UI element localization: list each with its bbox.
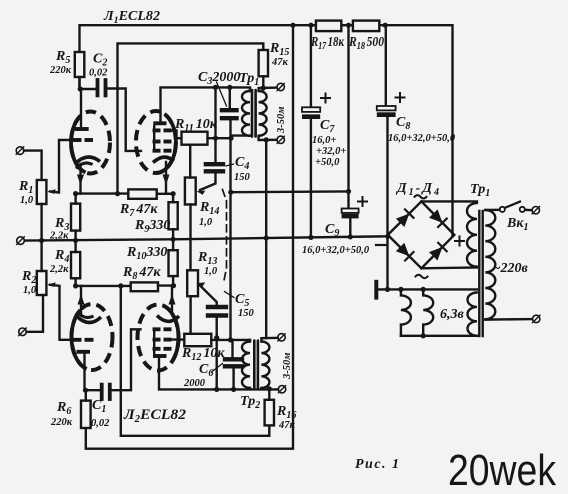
wire B+ long vertical to bottom bus [86, 25, 293, 449]
terminal Tr2 out bottom [278, 386, 285, 393]
wire cathode V4 up with arrow [172, 286, 174, 315]
svg-text:+32,0+: +32,0+ [316, 146, 346, 157]
svg-text:0,02: 0,02 [89, 68, 108, 79]
capacitor C4 [206, 162, 223, 166]
svg-text:220к: 220к [49, 65, 72, 76]
wire R16 top [268, 389, 270, 400]
node heater left [398, 287, 403, 292]
wire R14 top from screen drop [189, 145, 191, 178]
resistor R12 [184, 334, 211, 346]
node mid bus Tr commons [264, 235, 269, 240]
wire ground drop Tr1 to Tr2 secondary [265, 140, 267, 338]
wire anode node to C2 [80, 88, 96, 90]
node R16 top [267, 386, 272, 391]
plus sign C7 [321, 94, 330, 103]
resistor R14 [185, 178, 196, 205]
svg-text:1,0: 1,0 [20, 195, 34, 206]
wire mains winding bottom to terminal [485, 318, 532, 321]
resistor R8 [131, 282, 158, 291]
anode plate V3 [77, 350, 91, 354]
resistor R4 [71, 252, 80, 278]
svg-text:R747к: R747к [119, 202, 158, 219]
capacitor C6 [225, 357, 242, 361]
plus sign C8 [396, 93, 405, 102]
resistor R6 [81, 401, 91, 428]
wire anode V3 into tube [83, 354, 85, 391]
wire R9 top [172, 194, 174, 202]
wire R3 bottom to bus [74, 231, 76, 241]
switch Bk1 lever [505, 202, 520, 208]
wire C3 top lead [229, 87, 231, 108]
node cathode V1 [73, 191, 78, 196]
wire R5 bottom to anode node [78, 77, 80, 89]
svg-text:R10330: R10330 [126, 245, 167, 262]
node Tr1 secondary bottom ground drop [264, 137, 269, 142]
wire R13 wiper diagonal to C5 [200, 286, 217, 305]
diode D1 top-left [396, 214, 409, 227]
wire feedback R16 to cathode V3 [121, 286, 269, 436]
node heater mid top [421, 287, 426, 292]
node R12 C6 line [228, 337, 233, 342]
wire C3 bottom long vertical [229, 120, 231, 337]
wire ground mid bus [25, 236, 389, 240]
node C9 B+mid [346, 189, 351, 194]
node cathode V3 [73, 283, 78, 288]
capacitor C8 minus plate [377, 112, 396, 117]
node anode V1 [78, 86, 83, 91]
wire R1 bottom to bus [40, 204, 42, 240]
svg-text:2,2к: 2,2к [49, 231, 69, 242]
node feedback top join [115, 191, 120, 196]
node top bus C9 [346, 23, 351, 28]
svg-text:16,0+: 16,0+ [312, 135, 336, 146]
diode bridge frame [388, 201, 455, 268]
wire bridge bottom to HV winding [421, 266, 477, 269]
resistor R3 [71, 204, 80, 231]
wire bridge top to HV winding [421, 200, 477, 202]
transformer Tr1 output primary winding [242, 91, 250, 136]
svg-text:150: 150 [234, 172, 251, 183]
terminal input 2 [17, 237, 25, 245]
wire Tr2 secondary top to terminal [261, 338, 277, 342]
capacitor C7 plus plate [302, 107, 320, 112]
heater winding V2 tubes [423, 289, 433, 335]
wire R3 top to cathode node [74, 194, 76, 204]
node R15 secondary [261, 85, 266, 90]
cathode V2 [153, 157, 174, 162]
capacitor C1 [100, 385, 104, 399]
resistor R5 [75, 52, 85, 77]
label leader C6 [212, 364, 223, 373]
node anode V3 [83, 388, 88, 393]
wire R10 bottom to cathode node V4 [172, 276, 174, 286]
minus sign bridge [376, 244, 386, 246]
strap V4 internal [153, 330, 155, 356]
wire B+mid to C9 top [231, 190, 349, 193]
cathode V3 [77, 316, 102, 323]
terminal input 3 [19, 328, 27, 336]
wire cathode rail V3 to R8 [76, 285, 131, 287]
node top bus x293 [290, 23, 295, 28]
node cathode V2 R9 [171, 191, 176, 196]
wire R9 bottom to bus [172, 229, 174, 239]
wire R14 bottom to R13 top [189, 205, 191, 271]
plus sign C9 [358, 197, 367, 206]
capacitor C8 plus plate [377, 106, 396, 110]
node C5 line screen V4 [214, 335, 219, 340]
dashed gang line R14 R13 [223, 190, 227, 281]
svg-text:1,0: 1,0 [204, 266, 218, 277]
svg-text:C32000: C32000 [198, 70, 240, 87]
capacitor C5 [208, 305, 226, 309]
wire Tr1 secondary top to terminal [259, 88, 277, 91]
plus sign bridge [455, 237, 464, 246]
tube V4 pentode envelope [138, 305, 179, 371]
label leader C5 [225, 292, 235, 298]
tube V1 triode envelope [71, 112, 110, 174]
resistor R17 [316, 21, 341, 32]
wire R7 right to cathode node V2 [157, 193, 173, 195]
diode D3 bottom-left [396, 243, 409, 256]
cathode V4 [157, 316, 179, 322]
arrow R14 wiper [197, 191, 206, 195]
node mid bus R1R2 [39, 238, 44, 243]
chassis ground bar [374, 282, 378, 298]
wire Tr2 primary bottom corner [249, 388, 251, 390]
wire heater bottom rail [401, 335, 477, 337]
node mid bus C9 minus [348, 234, 353, 239]
wire R2 wiper to grid of tube V3 [50, 285, 71, 340]
svg-text:R18500: R18500 [348, 35, 384, 52]
wire C2 to grid V2 [108, 89, 142, 151]
node anode wire C3 branch [227, 85, 232, 90]
wire Tr1 primary bottom to node [231, 134, 250, 136]
transformer Tr1 power HV winding [467, 203, 477, 267]
label leader C4 [226, 164, 234, 166]
grid g1 V2 [153, 149, 161, 153]
node mid bus C7 minus [308, 235, 313, 240]
grid g2 V4 [153, 338, 161, 342]
wire screen g3 V2 to R11 [166, 130, 182, 138]
svg-text:2000: 2000 [183, 378, 206, 389]
arrow R13 wiper [196, 282, 205, 286]
node C6 join [231, 387, 236, 392]
diode D4 bottom-right [429, 247, 442, 261]
grid g3 V2 [153, 128, 161, 132]
transformer Tr1 power mains winding [485, 210, 495, 319]
wire R6 top to anode node [85, 390, 87, 400]
transformer Tr2 output primary winding [242, 342, 250, 388]
capacitor C2 [96, 80, 100, 95]
wire switch to mains terminal top [525, 209, 532, 212]
wire anode V3 node to C1 [86, 389, 100, 391]
terminal Tr1 out top [277, 83, 284, 90]
potentiometer R2 [37, 271, 47, 295]
cathode V1 [76, 157, 101, 164]
wire C6 top lead [231, 340, 233, 357]
transformer Tr1 power heater winding [468, 293, 478, 336]
svg-text:20wek: 20wek [448, 446, 557, 494]
wire C4 bottom to R14 wiper [200, 174, 216, 191]
wire anode V1 into tube [80, 89, 82, 127]
transformer Tr1 power core [478, 211, 480, 336]
tube V3 triode envelope [72, 304, 113, 370]
svg-text:R1110к: R1110к [174, 117, 218, 134]
anode plate V1 [75, 127, 89, 131]
wire R2 top to bus [40, 241, 42, 271]
switch Bk1 contact left [500, 207, 505, 212]
wire R10 top to bus [172, 239, 174, 250]
wire feedback R15 to cathode V1 [118, 43, 264, 193]
node top bus C7 [308, 23, 313, 28]
sign tilde top [415, 195, 427, 198]
wire R8 right to cathode node V4 [158, 284, 174, 286]
wire cathode rail V1 to R7 [76, 192, 129, 194]
wire C1 to grid V4 [112, 329, 141, 390]
grid g3 V4 [153, 347, 161, 351]
arrow R1 wiper [47, 189, 56, 194]
wire cathode V3 up with arrow [80, 286, 82, 316]
wire top B+ bus [80, 25, 316, 89]
terminal mains bottom [533, 315, 540, 322]
resistor R7 [128, 189, 156, 198]
node mid bus R3R4 [73, 238, 78, 243]
capacitor C9 minus plate [342, 214, 359, 219]
wire R4 bottom to cathode node [74, 278, 76, 286]
terminal input 1 [16, 147, 24, 155]
heater winding V1 tubes [401, 289, 411, 335]
wire Tr2 secondary bottom join rail [260, 388, 262, 390]
svg-text:R9330: R9330 [134, 218, 170, 235]
terminal Tr2 out top [278, 334, 285, 341]
svg-text:R1718к: R1718к [310, 35, 344, 52]
wire cathode V1 down with arrow [79, 164, 81, 194]
wire Tr2 primary top corner [249, 340, 251, 342]
resistor R10 [169, 250, 178, 276]
wire C5 bottom lead down [215, 318, 217, 390]
svg-text:Рис. 1: Рис. 1 [355, 457, 399, 472]
node feedback bottom join [118, 283, 123, 288]
transformer Tr2 output secondary winding [261, 342, 269, 388]
wire chassis to heater rail [378, 288, 477, 290]
node top bus C8 [383, 23, 388, 28]
svg-text:R847к: R847к [122, 265, 161, 282]
arrow R2 wiper [47, 282, 56, 287]
node heater mid bottom [421, 333, 426, 338]
node bridge minus bus join [385, 234, 390, 239]
wire cathode V2 down with arrow [166, 162, 173, 194]
potentiometer R1 [37, 180, 47, 204]
wire Tr1 secondary bottom to terminal [259, 136, 277, 140]
transformer Tr2 output core [253, 341, 256, 388]
terminal Tr1 out bottom [277, 136, 284, 143]
wire top bus right of R18 to bridge plus drop [379, 25, 452, 235]
wire R4 top to bus [74, 240, 76, 252]
node B+mid tap [228, 190, 233, 195]
capacitor C3 [222, 108, 237, 112]
node V-C join [214, 387, 219, 392]
node screen C3 line [228, 136, 233, 141]
wire C7 top lead [310, 25, 312, 107]
capacitor C9 plus plate [342, 209, 359, 213]
svg-text:16,0+32,0+50,0: 16,0+32,0+50,0 [388, 133, 456, 144]
resistor R9 [169, 202, 178, 229]
wire C8 bottom to bridge minus and chassis [386, 117, 388, 289]
wire anode V4 to secondary common rail [159, 358, 278, 389]
svg-text:2,2к: 2,2к [49, 264, 69, 275]
grid V1 [73, 138, 82, 142]
wire C7 bottom to ground bus [310, 119, 312, 237]
svg-text:3-50м: 3-50м [276, 107, 287, 134]
wire C8 top lead [385, 25, 387, 106]
sign tilde bottom [416, 275, 428, 278]
svg-text:6,3в: 6,3в [440, 307, 465, 322]
node anode wire C4 branch [213, 85, 218, 90]
svg-text:150: 150 [238, 308, 255, 319]
wire C4 top lead [214, 87, 216, 162]
capacitor C7 minus plate [302, 114, 320, 119]
transformer Tr1 output secondary winding [259, 91, 267, 136]
svg-text:1,0: 1,0 [199, 217, 213, 228]
resistor R11 [182, 132, 208, 145]
node screen C4 line [213, 136, 218, 141]
wire R15 bottom to secondary top [262, 76, 264, 88]
wire R13 bottom to R12 drop [189, 296, 191, 334]
wire mains winding top to switch [485, 209, 499, 212]
resistor R15 [259, 50, 268, 76]
anode plate V4 [153, 354, 167, 358]
anode plate V2 [153, 121, 166, 125]
terminal mains top [532, 207, 539, 214]
svg-text:~220в: ~220в [493, 261, 529, 276]
node chassis bridge drop [385, 287, 390, 292]
wire top bus between R17 R18 [341, 24, 353, 26]
grid g2 V2 [153, 140, 161, 144]
transformer Tr1 output core [251, 90, 254, 137]
svg-text:Л2ECL82: Л2ECL82 [123, 407, 186, 425]
wire anode V2 to Tr1 primary [161, 87, 251, 121]
svg-text:3-50м: 3-50м [282, 353, 293, 380]
wire R12 right to Tr2 primary top [211, 339, 250, 341]
wire C9 top lead [347, 25, 349, 208]
wire R11 right to screen node [208, 137, 232, 139]
strap V2 internal [153, 125, 155, 151]
wire screen V4 R12 lead [170, 338, 184, 340]
node cathode V4 R10 [171, 283, 176, 288]
wire input1 to R1 top [24, 151, 42, 180]
label leader C3 [217, 82, 227, 106]
resistor R16 [265, 400, 274, 426]
resistor R13 [187, 270, 198, 296]
grid V3 [73, 338, 82, 342]
switch Bk1 contact right [520, 207, 525, 212]
node mid bus R9R10 [171, 237, 176, 242]
svg-text:220к: 220к [50, 417, 73, 428]
wire C9 bottom to ground bus [349, 218, 351, 236]
svg-text:47к: 47к [278, 420, 296, 431]
wire input3 to R2 bottom [27, 295, 44, 332]
svg-text:+50,0: +50,0 [315, 157, 340, 168]
svg-text:R1210к: R1210к [181, 346, 225, 363]
svg-text:1,0: 1,0 [23, 285, 37, 296]
svg-text:47к: 47к [271, 57, 289, 68]
svg-text:16,0+32,0+50,0: 16,0+32,0+50,0 [302, 245, 370, 256]
diode D2 top-right [429, 209, 442, 222]
wire R1 wiper to grid of tube V1 [50, 140, 72, 193]
grid g1 V4 [153, 327, 161, 331]
svg-text:0,02: 0,02 [91, 418, 110, 429]
tube V2 pentode envelope [136, 111, 176, 173]
resistor R18 [353, 21, 379, 32]
wire C6 bottom lead [232, 369, 234, 390]
